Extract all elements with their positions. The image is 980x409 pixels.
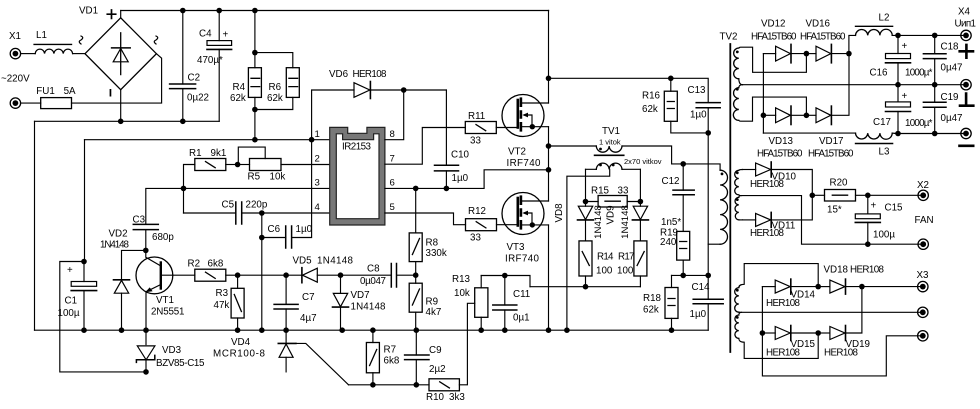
svg-text:1 vitok: 1 vitok [599,138,621,147]
fuse FU1 [36,86,76,108]
svg-text:VD12: VD12 [761,19,786,30]
svg-text:C15: C15 [885,203,904,214]
svg-text:5A: 5A [64,86,76,97]
svg-text:HER108: HER108 [750,228,785,239]
svg-text:R14: R14 [597,252,614,263]
node C18 bottom [932,82,938,88]
node VT1 emitter rail [143,327,149,333]
svg-text:TV2: TV2 [720,32,738,43]
svg-text:VD6: VD6 [329,69,349,80]
node C18 top [932,33,938,39]
svg-text:C16: C16 [870,68,889,79]
TV2 primary winding [708,170,727,244]
node VD3 bottom [143,369,149,375]
wire gate line bottom [349,384,430,386]
svg-text:VD4: VD4 [231,337,251,348]
IC U1 IR2153 [315,127,395,225]
wire R13 top line [481,276,530,287]
wire C1 top to VD3 bottom loop [60,262,146,372]
svg-text:R12: R12 [468,206,486,217]
svg-text:33: 33 [618,186,629,197]
svg-text:1µ0: 1µ0 [452,173,469,184]
wire X4 common rail [743,84,967,86]
svg-text:+: + [67,265,73,276]
svg-text:C19: C19 [941,92,959,103]
svg-text:+: + [902,41,908,52]
svg-text:R3: R3 [216,288,229,299]
svg-text:C4: C4 [199,29,212,40]
resistor R14 100 [579,241,614,287]
svg-text:C17: C17 [873,117,891,128]
diode VD5 1N4148 [293,256,354,283]
svg-text:R1: R1 [189,148,202,159]
wire fuse to bridge right corner [72,54,162,103]
svg-text:C10: C10 [451,150,470,161]
node TV1 primary tap [546,143,552,149]
zener VD3 BZV85-C15 [136,330,205,372]
svg-text:X2: X2 [917,180,929,191]
capacitor C9 2µ2 [405,330,446,385]
node VD15 cathode [815,330,821,336]
svg-text:R5: R5 [248,172,261,183]
svg-text:C6: C6 [268,224,281,235]
MOSFET VT2 IRF740 [502,95,549,170]
wire sense line [530,286,640,288]
resistor R18 62k [643,275,678,330]
svg-text:VD8: VD8 [554,203,565,223]
svg-text:2µ2: 2µ2 [429,364,446,375]
node C19 bottom [932,131,938,137]
node R15 left [583,199,589,205]
svg-text:L3: L3 [879,147,890,158]
svg-text:IR2153: IR2153 [342,142,372,153]
svg-text:R7: R7 [384,345,397,356]
svg-text:7: 7 [390,154,395,165]
svg-text:HFA15TB60: HFA15TB60 [800,32,846,43]
node VS join [546,167,552,173]
svg-text:IRF740: IRF740 [505,254,540,265]
resistor R2 6k8 [188,259,238,282]
inductor L1 [34,30,73,54]
capacitor C19 0µ47 [923,85,962,134]
svg-text:0µ22: 0µ22 [187,93,209,104]
resistor R4 62k [230,68,261,104]
resistor R9 4k7 [409,275,441,330]
diode VD15 HER108 [762,326,818,359]
svg-text:VD13: VD13 [769,136,794,147]
diode VD9 1N4148 [606,202,649,241]
svg-text:C5: C5 [222,200,235,211]
wire bridge bottom [120,90,122,122]
node VD7 top [338,272,344,278]
diode VD13 HFA15TB60 [757,106,806,159]
svg-text:C14: C14 [692,282,711,293]
svg-text:VD7: VD7 [351,290,370,301]
node pin4 COM [259,210,265,216]
capacitor C7 4µ7 [274,275,316,330]
wire left ground drop [34,121,36,330]
svg-text:VD3: VD3 [162,345,182,356]
node R16 C13 bottom [705,130,711,136]
svg-text:100µ: 100µ [58,308,80,319]
wire X1 to L1 [21,53,35,55]
svg-text:X3: X3 [917,270,930,281]
svg-text:VT2: VT2 [508,147,526,158]
capacitor C12 1n5* [661,164,694,232]
resistor R17 100 [617,241,647,287]
node C4 top [216,8,222,14]
svg-text:33: 33 [470,136,481,147]
svg-text:VD2: VD2 [109,229,128,240]
node R19 bottom [680,273,686,279]
node R3 bottom rail [235,327,241,333]
node pin6 R8 [413,186,419,192]
diode VD12 HFA15TB60 [751,19,806,63]
wire C12 node to TV2 primary [683,164,720,170]
node R13 bottom rail [478,327,484,333]
svg-text:VD18: VD18 [824,265,849,276]
svg-text:+: + [902,91,908,102]
svg-text:HER108: HER108 [353,69,388,80]
node R7 bottom [370,382,376,388]
capacitor C5 220p [184,200,330,225]
svg-text:R8: R8 [426,238,439,249]
node VD18 cathode [859,284,865,290]
svg-text:HER108: HER108 [750,179,785,190]
svg-text:6k8: 6k8 [384,356,400,367]
wire base node to VD2 [122,250,146,279]
resistor R1 9k1 [184,148,238,213]
svg-text:R20: R20 [830,178,849,189]
node C16 bottom [895,82,901,88]
wire -out rail [892,132,966,134]
svg-text:330k: 330k [426,248,447,259]
svg-text:R4: R4 [233,82,246,93]
transistor VT1 2N5551 [136,250,195,330]
node VD2 bottom rail [119,327,125,333]
svg-text:62k: 62k [230,93,246,104]
resistor R12 33 [466,206,518,244]
svg-text:TV1: TV1 [602,126,620,137]
capacitor C14 1µ0 [690,275,724,330]
svg-text:0µ047: 0µ047 [360,276,386,287]
node C14 top [705,273,711,279]
node R20 left [810,193,816,199]
wire X3 common tap [742,311,923,313]
node R16 top [668,76,674,82]
svg-text:HER108: HER108 [824,348,859,359]
resistor R11 33 [465,111,518,147]
svg-text:4k7: 4k7 [426,307,442,318]
svg-text:5: 5 [390,202,395,213]
node R8 bottom C8 [413,272,419,278]
wire COM riser [261,213,263,330]
svg-text:3: 3 [315,178,320,189]
svg-text:1n5*: 1n5* [661,217,681,228]
node R14 bottom [583,284,589,290]
connector X1 [1,31,30,108]
svg-text:FU1: FU1 [36,86,55,97]
svg-text:1N4148: 1N4148 [100,240,130,251]
svg-text:+: + [871,201,877,212]
wire R19 bottom link [672,274,709,276]
svg-text:BZV85-C15: BZV85-C15 [156,358,205,369]
node VD14 cathode [815,284,821,290]
node C16 top [895,33,901,39]
svg-text:C8: C8 [367,264,380,275]
node R4R6 join bottom [252,107,258,113]
svg-text:C7: C7 [302,292,315,303]
svg-text:1000µ*: 1000µ* [905,118,933,129]
svg-text:~220V: ~220V [1,74,30,85]
svg-text:100µ: 100µ [873,230,895,241]
capacitor C2 [170,11,209,122]
capacitor C10 1µ0 [435,90,470,188]
svg-text:VT3: VT3 [507,242,526,253]
resistor R6 62k [267,68,299,104]
svg-text:R17: R17 [618,252,635,263]
node VD15 anode [760,330,766,336]
inductor L3 [763,133,892,157]
capacitor C4 [197,11,232,122]
svg-text:HFA15TB60: HFA15TB60 [751,32,797,43]
diode VD18 HER108 [818,265,923,295]
node COM rail [259,327,265,333]
wire drain branch to R16 C13 [549,78,709,102]
svg-text:9k1: 9k1 [211,148,227,159]
svg-text:4µ7: 4µ7 [300,313,317,324]
node VD13 anode [761,113,767,119]
wire half-bridge column [548,11,550,331]
svg-text:VD16: VD16 [806,19,831,30]
wire pin5 to R12 [385,213,466,225]
svg-text:VT1: VT1 [156,295,174,306]
wire X1 to fuse [21,102,41,104]
pin3 line to C3 [146,188,330,224]
svg-text:1N4148: 1N4148 [620,205,631,239]
MOSFET VT3 IRF740 [502,193,549,265]
node VD16 VD17 join [846,51,852,57]
svg-text:100: 100 [617,266,634,277]
node R9 bottom rail [414,327,420,333]
svg-text:6: 6 [390,178,395,189]
capacitor C6 1µ0 [262,140,313,248]
svg-text:L2: L2 [879,13,890,24]
bottom rail (common) [35,329,709,331]
capacitor C15 100µ [855,195,903,244]
transformer TV2 core [729,44,731,352]
svg-text:HER108: HER108 [766,348,801,359]
svg-text:R16: R16 [642,91,661,102]
svg-text:MCR100-8: MCR100-8 [213,349,266,360]
connector X2 [915,180,934,249]
svg-text:15*: 15* [827,205,842,216]
svg-text:10k: 10k [454,288,470,299]
capacitor C13 1µ0 [688,85,721,133]
svg-text:+: + [223,30,229,41]
wire Vcc to C1 [84,140,86,262]
trimmer R13 10k [452,274,488,330]
svg-text:1N4148: 1N4148 [593,205,604,239]
svg-text:1µ0: 1µ0 [690,110,707,121]
node C1 top [81,259,87,265]
svg-text:IRF740: IRF740 [507,158,542,169]
negative rail [35,120,220,122]
node TV1 C12 junction [680,161,686,167]
svg-text:L1: L1 [36,30,47,41]
wire FAN common [742,196,924,245]
svg-text:C18: C18 [941,42,960,53]
wire L1 to bridge [73,53,85,55]
svg-text:1000µ*: 1000µ* [905,68,933,79]
svg-text:R2: R2 [188,259,201,270]
svg-text:Uип1: Uип1 [955,19,977,30]
node C7 VD5 [283,272,289,278]
svg-text:470µ*: 470µ* [197,55,223,66]
svg-text:240: 240 [660,237,677,248]
svg-text:C2: C2 [188,73,201,84]
svg-text:VD17: VD17 [819,136,844,147]
resistor R7 6k8 [366,330,399,385]
svg-text:C11: C11 [513,289,530,300]
transformer TV1 [549,126,684,330]
node C11 top [502,273,508,279]
diode VD8 1N4148 [554,202,604,241]
svg-text:47k: 47k [214,300,230,311]
trimmer R5 10k [238,147,330,182]
connector X4 [955,7,977,146]
node C17 bottom [895,131,901,137]
capacitor C16 1000µ* [870,35,933,84]
node C2 top [180,8,186,14]
svg-text:2x70 vitkov: 2x70 vitkov [624,157,662,166]
node base VT1 [143,248,149,254]
svg-text:220p: 220p [246,200,268,211]
svg-text:HER108: HER108 [850,265,885,276]
Vcc line [85,139,330,141]
thyristor VD4 MCR100-8 [213,330,349,385]
+rail (top) [121,10,549,12]
diode VD11 HER108 [743,195,813,239]
node C15 bottom [865,241,871,247]
diode VD16 HFA15TB60 [800,19,849,63]
resistor R15 33 [586,186,641,208]
svg-text:HFA15TB60: HFA15TB60 [808,149,854,160]
svg-text:62k: 62k [267,93,283,104]
wire pin8 riser [385,90,404,140]
wire R2-VD5 line [238,274,302,276]
node Vcc R4R6 [252,137,258,143]
svg-text:VD5: VD5 [293,256,313,267]
svg-text:6k8: 6k8 [208,259,224,270]
svg-text:0µ47: 0µ47 [941,63,963,74]
diode VD17 HFA15TB60 [806,54,854,160]
svg-text:1: 1 [315,129,320,140]
node bridge-minus [118,119,124,125]
wire +out rail [892,34,966,36]
diode VD14 HER108 [762,279,818,309]
diode VD19 HER108 [818,287,870,359]
svg-text:R18: R18 [643,293,662,304]
node C9 bottom [414,382,420,388]
node VT3 source rail [546,327,552,333]
node Vcc VD6 riser [309,137,315,143]
capacitor C11 0µ1 [493,276,530,331]
node R4R6 top rail [252,8,258,14]
svg-text:R11: R11 [468,111,485,122]
svg-text:0µ47: 0µ47 [941,113,963,124]
svg-text:R15: R15 [591,186,610,197]
svg-text:C12: C12 [662,176,680,187]
svg-text:FAN: FAN [915,215,934,226]
wire bridge top to +rail [120,11,122,18]
svg-text:62k: 62k [642,104,658,115]
svg-text:2: 2 [315,154,320,165]
node VD13 cathode [804,113,810,119]
bridge rectifier VD1 [79,6,158,97]
node R18 bottom rail [669,327,675,333]
svg-text:8: 8 [390,129,395,140]
svg-text:0µ1: 0µ1 [513,313,530,324]
svg-text:C13: C13 [688,85,707,96]
resistor R20 15* [812,178,923,216]
capacitor C3 680p [133,215,175,251]
TV2 secondary winding 1 (X4) [733,47,806,121]
connector X3 [917,270,930,341]
svg-text:R13: R13 [452,274,471,285]
diode VD10 HER108 [743,162,813,195]
svg-text:10k: 10k [270,172,286,183]
TV2 secondary winding 3 (X3) [735,264,819,359]
node pin6 C10 [444,186,450,192]
node C1 bottom rail [81,327,87,333]
node TV1 ct rail [564,327,570,333]
node R1 R5 junction [235,162,241,168]
wire node L riser [762,287,922,376]
resistor R3 47k [214,275,245,330]
node VD7 bottom rail [339,327,345,333]
resistor R8 330k [409,188,447,275]
svg-text:1N4148: 1N4148 [351,302,387,313]
node C6 left [259,235,265,241]
svg-text:R10: R10 [426,392,445,403]
svg-text:X1: X1 [9,31,21,42]
diode VD6 HER108 [312,69,447,140]
wire pin6 VS [385,170,549,189]
svg-text:62k: 62k [643,305,659,316]
svg-text:2N5551: 2N5551 [151,307,185,318]
diode VD2 1N4148 [100,229,130,331]
svg-text:1µ0: 1µ0 [296,224,313,235]
resistor R16 62k [642,78,708,133]
svg-text:4: 4 [315,202,321,213]
wire snubber riser [707,133,709,276]
svg-text:680p: 680p [152,232,174,243]
inductor L2 [849,13,893,54]
TV2 secondary winding 2 (FAN) [735,170,743,220]
svg-text:3k3: 3k3 [449,392,465,403]
svg-text:VD9: VD9 [606,205,617,224]
node C11 bottom rail [502,327,508,333]
capacitor C8 0µ047 [341,264,416,288]
resistor R10 3k3 [426,303,475,403]
svg-text:HER108: HER108 [766,298,801,309]
svg-text:VD1: VD1 [79,6,98,17]
svg-text:R9: R9 [426,297,439,308]
wire VD12 anode riser / node A [762,54,764,134]
node R7 top rail [370,327,376,333]
node pin3 riser [181,186,187,192]
